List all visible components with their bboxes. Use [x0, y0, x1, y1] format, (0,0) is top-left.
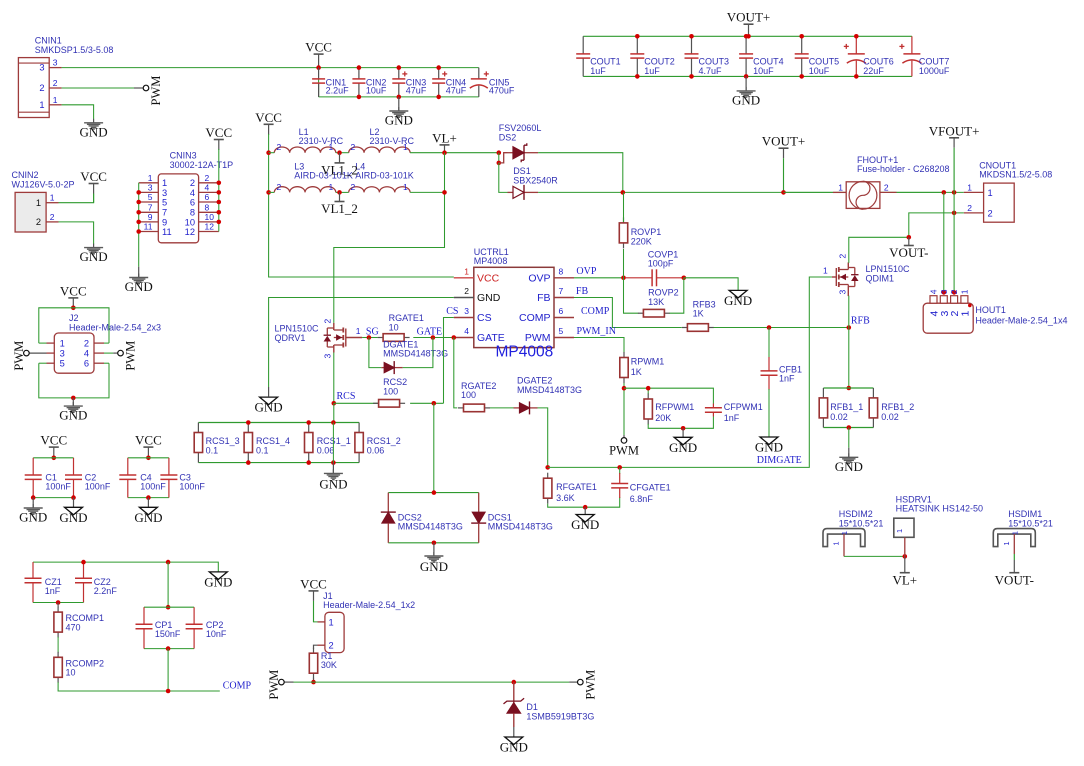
ground [755, 437, 783, 455]
wire [548, 277, 832, 467]
svg-text:RFB1_2: RFB1_2 [881, 402, 914, 412]
svg-text:7: 7 [559, 286, 564, 296]
svg-text:VL1_2: VL1_2 [321, 201, 358, 216]
junction [854, 74, 859, 79]
junction [332, 401, 337, 406]
svg-text:22uF: 22uF [863, 66, 884, 76]
resistor RFPWM1 20K [644, 394, 694, 425]
terminal PWM [267, 670, 284, 700]
svg-text:Fuse-holder - C268208: Fuse-holder - C268208 [857, 164, 950, 174]
capacitor COUT5 10uF [795, 36, 840, 76]
wire GND stem [72, 398, 74, 406]
junction [583, 505, 588, 510]
svg-text:4: 4 [205, 183, 210, 193]
wire [403, 338, 433, 368]
wire COUT bottom rail [583, 75, 912, 77]
wire [619, 467, 621, 474]
wire [128, 457, 169, 459]
junction [744, 74, 749, 79]
resistor ROVP1 220K [619, 217, 661, 248]
connector CNOUT1 MKDSN1.5/2-5.08 [964, 161, 1052, 223]
svg-text:MP4008: MP4008 [496, 344, 554, 361]
wire [269, 191, 275, 193]
svg-text:6.8nF: 6.8nF [630, 494, 654, 504]
svg-text:2: 2 [277, 142, 282, 152]
ground [134, 507, 162, 525]
junction [621, 276, 626, 281]
wire [1013, 554, 1015, 560]
wire [538, 408, 548, 468]
svg-text:GND: GND [755, 440, 783, 455]
svg-text:MP4008: MP4008 [474, 256, 508, 266]
svg-text:GND: GND [500, 740, 528, 755]
capacitor C3 100nF [160, 458, 205, 498]
svg-text:1000uF: 1000uF [919, 66, 950, 76]
svg-text:PWM: PWM [149, 76, 163, 106]
power flag VFOUT+ [929, 123, 980, 192]
ground [571, 515, 599, 533]
svg-text:VCC: VCC [205, 125, 232, 140]
wire [33, 562, 218, 572]
svg-text:4.7uF: 4.7uF [699, 66, 723, 76]
svg-text:3: 3 [838, 290, 848, 295]
wire [144, 648, 194, 650]
svg-text:COUT1: COUT1 [590, 57, 621, 67]
junction [217, 181, 222, 186]
svg-text:GND: GND [732, 92, 760, 107]
svg-text:47uF: 47uF [446, 86, 467, 96]
svg-text:13K: 13K [648, 297, 664, 307]
junction [767, 325, 772, 330]
wire [59, 222, 94, 244]
svg-text:AIRD-03-101K: AIRD-03-101K [355, 171, 414, 181]
capacitor CIN3 47uF [392, 68, 427, 97]
wire [336, 191, 349, 193]
svg-text:VCC: VCC [477, 273, 500, 285]
junction [316, 65, 321, 70]
svg-text:2: 2 [967, 203, 972, 213]
wire [574, 338, 624, 353]
diode DGATE2 [0, 0, 538, 414]
diode DS2 FSV2060L jog lead [499, 153, 508, 163]
svg-text:100nF: 100nF [179, 482, 205, 492]
wire [624, 388, 713, 403]
junction [781, 190, 786, 195]
junction [952, 290, 957, 295]
svg-text:9: 9 [162, 217, 167, 227]
lead to PWM terminal [284, 681, 293, 683]
svg-text:MMSD4148T3G: MMSD4148T3G [488, 522, 553, 532]
svg-text:0.1: 0.1 [206, 445, 219, 455]
junction [436, 95, 441, 100]
svg-text:PWM: PWM [609, 444, 639, 458]
ground [125, 274, 153, 295]
svg-text:CS: CS [446, 306, 458, 317]
resistor RCOMP2 10 [54, 652, 104, 683]
junction [306, 460, 311, 465]
junction [136, 190, 141, 195]
junction [71, 495, 76, 500]
junction [136, 229, 141, 234]
junction [146, 456, 151, 461]
ground [204, 572, 232, 590]
svg-text:1: 1 [1002, 541, 1011, 545]
wire [410, 191, 444, 193]
wire [848, 237, 909, 262]
junction [266, 150, 271, 155]
wire [574, 298, 682, 328]
svg-text:10nF: 10nF [206, 629, 227, 639]
svg-text:1: 1 [895, 529, 904, 533]
junction [432, 490, 437, 495]
power flag VCC [135, 433, 162, 458]
svg-text:MMSD4148T3G: MMSD4148T3G [517, 385, 582, 395]
svg-text:SMKDSP1.5/3-5.08: SMKDSP1.5/3-5.08 [35, 45, 114, 55]
svg-text:COUT6: COUT6 [863, 57, 894, 67]
ground [732, 87, 760, 108]
capacitor COUT6 22uF [844, 36, 894, 76]
svg-text:COUT2: COUT2 [644, 57, 675, 67]
svg-text:CNIN1: CNIN1 [35, 36, 62, 46]
wire [623, 383, 625, 435]
wire [574, 277, 624, 279]
wire [909, 213, 964, 237]
svg-text:VFOUT+: VFOUT+ [929, 123, 980, 138]
svg-text:PWM: PWM [525, 332, 551, 344]
ground [255, 397, 283, 415]
svg-text:1: 1 [50, 193, 55, 203]
junction [952, 190, 957, 195]
resistor RFGATE1 3.6K [544, 473, 597, 504]
junction [71, 306, 76, 311]
junction [166, 646, 171, 651]
svg-text:2: 2 [884, 183, 889, 193]
resistor RCS2 100 [373, 377, 407, 407]
power flag VL1_2 [321, 153, 358, 178]
resistor RCS1_1 0.06 [305, 423, 351, 463]
connector CNIN1 SMKDSP1.5/3-5.08 [18, 36, 113, 118]
junction [166, 605, 171, 610]
ground [724, 290, 752, 308]
svg-text:OVP: OVP [576, 266, 596, 277]
svg-text:10uF: 10uF [753, 66, 774, 76]
svg-text:DS2: DS2 [499, 133, 517, 143]
wire DCS top rail [388, 492, 478, 494]
junction [71, 396, 76, 401]
wire [538, 153, 623, 193]
svg-text:2: 2 [84, 339, 89, 349]
svg-text:DGATE2: DGATE2 [0, 0, 35, 2]
svg-text:11: 11 [162, 227, 172, 237]
capacitor CIN1 2.2uF [312, 68, 349, 97]
svg-text:10uF: 10uF [366, 86, 387, 96]
capacitor CIN2 10uF [352, 68, 387, 97]
svg-text:1: 1 [60, 339, 65, 349]
wire GND stem [73, 498, 75, 508]
svg-text:8: 8 [559, 266, 564, 276]
capacitor CP1 150nF [136, 607, 181, 648]
svg-text:DIMGATE: DIMGATE [757, 455, 802, 466]
svg-text:VOUT-: VOUT- [889, 245, 928, 260]
resistor R1 30K [309, 648, 337, 679]
wire [844, 555, 905, 557]
svg-text:GND: GND [255, 400, 283, 415]
power flag VL1_2 [321, 192, 358, 216]
junction [847, 386, 852, 391]
wire [943, 192, 945, 292]
svg-text:470: 470 [66, 622, 81, 632]
svg-text:6: 6 [559, 306, 564, 316]
wire [768, 389, 770, 437]
svg-text:1: 1 [148, 173, 153, 183]
ground [80, 244, 108, 265]
junction [689, 34, 694, 39]
svg-text:2: 2 [323, 319, 333, 324]
svg-text:3.6K: 3.6K [556, 493, 575, 503]
resistor RFB3 1K [682, 299, 716, 331]
svg-text:Header-Male-2.54_1x4: Header-Male-2.54_1x4 [975, 315, 1067, 325]
wire [313, 678, 315, 682]
junction [942, 190, 947, 195]
svg-text:CFGATE1: CFGATE1 [630, 483, 671, 493]
wire [269, 298, 454, 388]
junction [512, 680, 517, 685]
junction [31, 495, 36, 500]
svg-text:VL1_2: VL1_2 [321, 163, 358, 178]
wire [39, 342, 47, 344]
resistor ROVP2 13K [638, 288, 679, 317]
wire GND stem [32, 498, 34, 508]
svg-text:3: 3 [39, 63, 44, 73]
wire [144, 606, 194, 608]
capacitor CZ2 2.2nF [75, 562, 117, 602]
svg-text:COUT5: COUT5 [809, 57, 840, 67]
diode DCS2 MMSD4148T3G [381, 493, 463, 543]
svg-text:4: 4 [190, 188, 195, 198]
junction [52, 456, 57, 461]
wire [904, 537, 906, 556]
wire GND stem [433, 543, 435, 556]
svg-text:1: 1 [162, 178, 167, 188]
svg-text:1uF: 1uF [590, 66, 606, 76]
lead to PWM terminal [113, 352, 118, 354]
junction [432, 541, 437, 546]
wire [953, 192, 955, 292]
power flag VOUT+ [727, 10, 770, 37]
svg-text:MMSD4148T3G: MMSD4148T3G [398, 522, 463, 532]
svg-text:220K: 220K [631, 236, 652, 246]
junction [166, 560, 171, 565]
svg-text:VCC: VCC [135, 433, 162, 448]
svg-text:GND: GND [319, 476, 347, 491]
svg-text:150nF: 150nF [155, 629, 181, 639]
svg-text:2: 2 [329, 641, 334, 651]
connector CNIN2 WJ126V-5.0-2P [12, 170, 75, 232]
svg-text:COMP: COMP [581, 306, 610, 317]
svg-text:Header-Male-2.54_1x2: Header-Male-2.54_1x2 [323, 600, 415, 610]
junction [81, 560, 86, 565]
svg-text:4: 4 [929, 289, 939, 294]
wire [57, 603, 59, 608]
svg-text:2: 2 [36, 217, 41, 227]
svg-text:RFB: RFB [851, 315, 870, 326]
svg-text:15*10.5*21: 15*10.5*21 [1008, 518, 1053, 528]
wire GND stem [513, 727, 515, 737]
junction [635, 34, 640, 39]
svg-text:PWM: PWM [12, 341, 26, 371]
junction [432, 401, 437, 406]
svg-text:1nF: 1nF [724, 413, 740, 423]
junction [952, 211, 957, 216]
junction [847, 425, 852, 430]
svg-text:2: 2 [949, 289, 959, 294]
wire [847, 296, 850, 327]
svg-text:PWM: PWM [124, 341, 138, 371]
svg-text:VL+: VL+ [432, 130, 457, 145]
svg-text:MKDSN1.5/2-5.08: MKDSN1.5/2-5.08 [979, 170, 1052, 180]
wire [454, 338, 458, 408]
resistor RCS1_2 0.06 [355, 423, 401, 463]
svg-text:1: 1 [838, 183, 843, 193]
wire GND stem [332, 463, 334, 474]
svg-text:470uF: 470uF [489, 86, 515, 96]
svg-text:1: 1 [823, 265, 828, 275]
svg-text:RFGATE1: RFGATE1 [556, 482, 597, 492]
svg-text:PWM_IN: PWM_IN [577, 326, 616, 337]
svg-text:GND: GND [571, 517, 599, 532]
inductor L3 AIRD-03-101K [274, 162, 353, 193]
svg-text:GND: GND [59, 408, 87, 423]
terminal PWM [578, 670, 598, 700]
ground [835, 453, 863, 474]
svg-text:1: 1 [832, 541, 841, 545]
power flag VCC [305, 40, 332, 68]
svg-text:2310-V-RC: 2310-V-RC [370, 136, 415, 146]
svg-text:1K: 1K [631, 367, 642, 377]
svg-text:COUT4: COUT4 [753, 57, 784, 67]
junction [367, 335, 372, 340]
connector J2 Header-Male-2.54_2x3 [47, 313, 162, 373]
svg-text:3: 3 [162, 188, 167, 198]
lead to PWM terminal [29, 352, 46, 354]
svg-text:VCC: VCC [305, 40, 332, 55]
connector J1 Header-Male-2.54_1x2 [318, 591, 416, 653]
svg-text:HOUT1: HOUT1 [975, 305, 1006, 315]
wire [714, 327, 849, 329]
svg-text:1: 1 [967, 182, 972, 192]
svg-text:1SMB5919BT3G: 1SMB5919BT3G [526, 711, 594, 721]
svg-text:CNIN2: CNIN2 [12, 170, 39, 180]
power flag VL+ [432, 130, 457, 152]
wire [784, 191, 833, 193]
junction [854, 34, 859, 39]
svg-text:VCC: VCC [300, 576, 327, 591]
junction [622, 386, 627, 391]
wire [369, 338, 381, 368]
svg-text:VL+: VL+ [892, 572, 917, 587]
svg-text:VOUT+: VOUT+ [727, 10, 770, 25]
svg-text:9: 9 [148, 212, 153, 222]
lead to PWM terminal [623, 435, 625, 438]
junction [246, 460, 251, 465]
wire [104, 342, 109, 344]
svg-text:VCC: VCC [255, 110, 282, 125]
wire [269, 152, 275, 154]
wire GND stem [147, 498, 149, 508]
junction [646, 386, 651, 391]
junction [337, 190, 342, 195]
svg-text:6: 6 [84, 359, 89, 369]
terminal PWM [609, 438, 639, 458]
svg-text:GND: GND [420, 559, 448, 574]
svg-text:2: 2 [464, 286, 469, 296]
wire [548, 497, 620, 507]
ground [19, 504, 47, 525]
wire RFB1 bottom rail [823, 427, 873, 429]
junction [246, 420, 251, 425]
wire [413, 337, 454, 339]
wire [58, 682, 220, 691]
capacitor C2 100nF [65, 458, 111, 498]
svg-text:3: 3 [60, 349, 65, 359]
capacitor COUT3 4.7uF [685, 36, 730, 76]
wire [648, 417, 713, 429]
connector HOUT1 Header-Male-2.54 1x4 [923, 289, 1067, 333]
terminal PWM [12, 341, 29, 371]
wire GND stem [268, 387, 270, 396]
svg-text:RCS: RCS [337, 391, 356, 402]
svg-text:SBX2540R: SBX2540R [513, 175, 558, 185]
svg-text:2310-V-RC: 2310-V-RC [299, 136, 344, 146]
svg-text:7: 7 [162, 208, 167, 218]
ground [420, 552, 448, 574]
svg-text:COMP: COMP [519, 312, 551, 324]
wire [433, 403, 435, 492]
wire [104, 352, 113, 354]
svg-text:30002-12A-T1P: 30002-12A-T1P [170, 160, 234, 170]
wire GND stem [848, 448, 850, 458]
inductor L4 AIRD-03-101K [349, 162, 414, 193]
wire [57, 637, 59, 653]
svg-text:2.2nF: 2.2nF [94, 586, 118, 596]
wire [269, 134, 454, 277]
wire [362, 337, 378, 339]
inductor L2 2310-V-RC [349, 127, 415, 153]
power flag VCC [40, 433, 67, 458]
capacitor CIN4 47uF [432, 68, 467, 97]
wire [444, 318, 454, 404]
wire RCS1 bank top rail [198, 422, 359, 424]
capacitor CFB1 1nF [761, 357, 803, 390]
svg-text:3: 3 [148, 183, 153, 193]
svg-text:100nF: 100nF [140, 482, 166, 492]
svg-text:100nF: 100nF [85, 482, 111, 492]
svg-text:QDRV1: QDRV1 [275, 333, 306, 343]
wire [498, 153, 500, 163]
power flag VCC [255, 110, 282, 135]
wire [848, 428, 850, 448]
resistor RCS1_3 0.1 [194, 423, 239, 463]
wire [843, 534, 845, 556]
wire [319, 67, 479, 69]
wire [332, 423, 334, 463]
junction [136, 220, 141, 225]
op-amp U1 UCTRL1 MP4008 controller IC [454, 247, 574, 361]
resistor RCS1_4 0.1 [244, 423, 290, 463]
svg-text:1: 1 [464, 266, 469, 276]
svg-text:1K: 1K [693, 309, 704, 319]
svg-text:4: 4 [464, 326, 469, 336]
